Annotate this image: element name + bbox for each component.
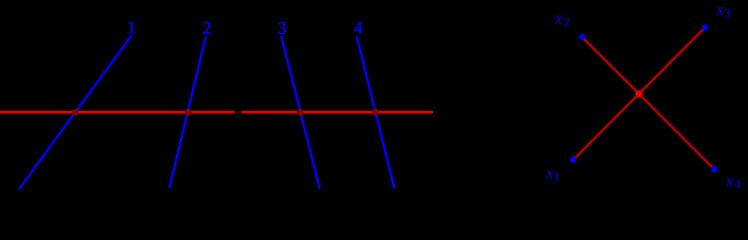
svg-text:2: 2 bbox=[564, 15, 570, 29]
wire: red transversal line right segment bbox=[241, 111, 433, 114]
dark red segment x2 to x4 bbox=[582, 37, 714, 169]
dark red segment x1 to x3 bbox=[573, 28, 705, 160]
intersection dot on line 3 bbox=[297, 109, 304, 116]
intersection dot on line 2 bbox=[185, 109, 192, 116]
blue line 3 bbox=[281, 36, 320, 189]
wire: red transversal line left segment bbox=[0, 111, 235, 114]
svg-text:x: x bbox=[715, 0, 724, 19]
intersection dot on line 4 bbox=[372, 109, 379, 116]
point x3 (blue) bbox=[702, 24, 708, 30]
point x2 (blue) bbox=[579, 34, 585, 40]
point x1 (blue) bbox=[570, 157, 576, 163]
svg-text:x: x bbox=[725, 172, 734, 191]
blue line 2 bbox=[169, 37, 205, 188]
blue line 4 bbox=[357, 36, 395, 189]
svg-text:4: 4 bbox=[354, 18, 363, 38]
svg-text:3: 3 bbox=[278, 18, 287, 38]
node: dim continuation dot in gap bbox=[237, 111, 240, 113]
blue line 1 bbox=[19, 36, 131, 190]
svg-text:1: 1 bbox=[553, 169, 559, 183]
svg-text:3: 3 bbox=[724, 6, 730, 20]
intersection dot on line 1 bbox=[72, 109, 79, 116]
svg-text:1: 1 bbox=[127, 17, 136, 37]
svg-text:x: x bbox=[554, 8, 563, 27]
svg-text:2: 2 bbox=[203, 18, 212, 38]
center point (bright red) bbox=[635, 90, 642, 97]
point x4 (blue) bbox=[711, 166, 717, 172]
svg-text:4: 4 bbox=[734, 178, 741, 192]
